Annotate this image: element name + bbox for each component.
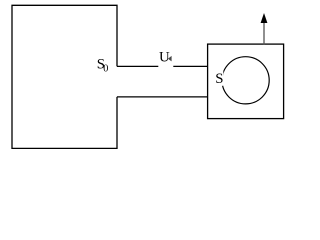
label S white backing (clips circle's left edge) [213,71,223,86]
arrow head [261,13,268,23]
svg-text:U: U [159,50,170,66]
box S (small square) [208,44,284,119]
wire upper-left segment [117,65,158,67]
circle (speaker) inside box [222,57,269,104]
wire lower [117,96,208,98]
svg-text:0: 0 [103,64,108,75]
block S0 (large rectangle, right side notched between the two wires) [12,5,117,148]
wire upper-right segment [173,65,207,67]
label U subscript (small triangle-like "4") [168,56,172,62]
arrow shaft [263,23,265,45]
svg-text:S: S [215,71,223,87]
